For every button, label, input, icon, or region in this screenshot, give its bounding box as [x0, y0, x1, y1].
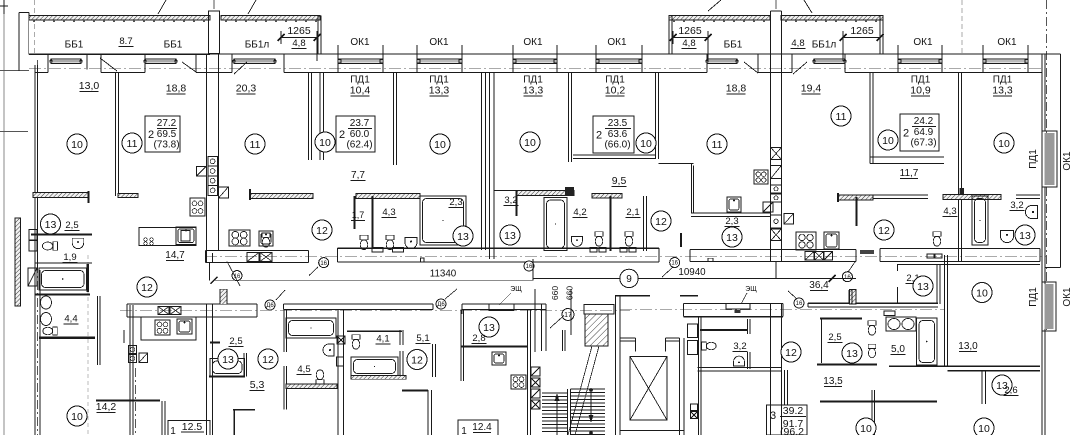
svg-text:Д6: Д6: [437, 302, 445, 308]
svg-text:12: 12: [655, 216, 667, 228]
svg-text:16: 16: [796, 301, 803, 307]
svg-text:3,2: 3,2: [1010, 200, 1023, 211]
svg-text:10: 10: [640, 138, 652, 150]
svg-text:11: 11: [127, 138, 138, 150]
svg-text:(62.4): (62.4): [346, 140, 372, 151]
svg-text:5,1: 5,1: [416, 333, 429, 344]
svg-text:4,3: 4,3: [943, 206, 956, 217]
svg-text:1265: 1265: [850, 25, 874, 37]
svg-text:1,9: 1,9: [63, 252, 76, 263]
svg-text:(66.0): (66.0): [604, 140, 630, 151]
svg-text:3,2: 3,2: [504, 195, 517, 206]
svg-text:660: 660: [550, 286, 560, 300]
svg-text:12: 12: [262, 354, 274, 366]
svg-text:16: 16: [844, 275, 851, 281]
svg-text:5,3: 5,3: [250, 379, 265, 391]
svg-text:(96.2: (96.2: [780, 426, 804, 435]
svg-text:10,2: 10,2: [605, 85, 626, 97]
svg-text:23.7: 23.7: [350, 118, 370, 129]
svg-text:1265: 1265: [678, 25, 702, 37]
svg-text:ББ1л: ББ1л: [812, 40, 837, 51]
svg-text:ОК1: ОК1: [913, 37, 933, 48]
svg-text:1,7: 1,7: [352, 210, 365, 220]
svg-text:18,8: 18,8: [166, 83, 187, 95]
svg-text:13,0: 13,0: [79, 80, 100, 92]
svg-text:10: 10: [71, 411, 83, 423]
svg-text:10: 10: [524, 137, 536, 149]
svg-text:4,8: 4,8: [292, 38, 305, 49]
svg-text:16: 16: [526, 264, 533, 270]
svg-text:10: 10: [976, 287, 988, 299]
svg-text:10: 10: [998, 138, 1010, 150]
svg-text:10: 10: [978, 423, 990, 435]
svg-text:ПД1: ПД1: [1028, 287, 1039, 307]
svg-text:ББ1: ББ1: [164, 40, 183, 51]
svg-text:ОК1: ОК1: [997, 37, 1017, 48]
svg-text:16: 16: [671, 261, 678, 267]
svg-text:11: 11: [712, 139, 723, 151]
svg-text:ОК1: ОК1: [429, 37, 449, 48]
svg-text:10: 10: [71, 139, 83, 151]
svg-text:13: 13: [457, 231, 469, 243]
svg-text:64.9: 64.9: [914, 127, 934, 138]
svg-text:20,3: 20,3: [236, 83, 257, 95]
svg-text:2,8: 2,8: [472, 333, 485, 344]
svg-text:69.5: 69.5: [157, 129, 177, 140]
svg-text:14,7: 14,7: [165, 250, 185, 261]
svg-text:ПД1: ПД1: [1028, 149, 1039, 169]
svg-text:4,3: 4,3: [382, 207, 395, 218]
svg-text:10940: 10940: [678, 267, 706, 278]
svg-text:14,2: 14,2: [96, 401, 117, 413]
svg-text:13: 13: [726, 232, 738, 244]
svg-text:12: 12: [878, 225, 890, 237]
svg-text:11340: 11340: [430, 269, 457, 280]
svg-text:10: 10: [434, 139, 446, 151]
svg-text:13,5: 13,5: [823, 376, 843, 387]
svg-text:13: 13: [483, 322, 495, 334]
svg-text:11,7: 11,7: [900, 168, 919, 179]
svg-text:660: 660: [565, 286, 575, 300]
svg-text:2,5: 2,5: [229, 336, 242, 347]
svg-text:ББ1: ББ1: [65, 40, 84, 51]
svg-text:4,1: 4,1: [376, 334, 389, 345]
svg-text:(67.3): (67.3): [910, 138, 936, 149]
svg-text:10: 10: [882, 135, 894, 147]
svg-text:10,4: 10,4: [350, 85, 371, 97]
svg-text:19,4: 19,4: [801, 83, 822, 95]
svg-text:2,5: 2,5: [828, 332, 841, 343]
svg-text:12: 12: [785, 347, 797, 359]
svg-text:ЭЩ: ЭЩ: [745, 286, 757, 293]
svg-text:ОК1: ОК1: [350, 37, 370, 48]
svg-text:1265: 1265: [287, 25, 311, 37]
svg-text:4,8: 4,8: [791, 38, 804, 49]
svg-text:60.0: 60.0: [350, 129, 370, 140]
svg-text:10: 10: [860, 423, 872, 435]
svg-text:2: 2: [339, 129, 345, 141]
svg-text:13,3: 13,3: [429, 85, 450, 97]
svg-text:12: 12: [316, 225, 328, 237]
svg-text:13: 13: [504, 230, 516, 242]
svg-text:4,4: 4,4: [64, 314, 77, 325]
svg-text:39.2: 39.2: [783, 405, 804, 417]
svg-text:ББ1: ББ1: [724, 40, 743, 51]
svg-text:12: 12: [411, 354, 423, 366]
svg-text:2: 2: [903, 128, 909, 140]
svg-text:ОК1: ОК1: [1062, 151, 1073, 171]
svg-text:ОК1: ОК1: [607, 37, 627, 48]
svg-text:7,7: 7,7: [351, 170, 365, 181]
svg-text:(73.8): (73.8): [153, 140, 179, 151]
svg-text:2,3: 2,3: [725, 216, 738, 227]
svg-text:9,5: 9,5: [612, 175, 627, 187]
svg-text:18,8: 18,8: [726, 83, 747, 95]
svg-text:5,0: 5,0: [891, 344, 905, 355]
svg-text:11: 11: [836, 111, 847, 123]
svg-text:24.2: 24.2: [914, 116, 934, 127]
svg-text:Д6: Д6: [266, 303, 274, 309]
svg-text:3: 3: [770, 410, 776, 422]
svg-text:ББ1л: ББ1л: [245, 40, 270, 51]
svg-text:27.2: 27.2: [157, 118, 177, 129]
svg-text:2,6: 2,6: [1004, 385, 1017, 396]
svg-text:ОК1: ОК1: [523, 37, 543, 48]
svg-text:13: 13: [45, 219, 57, 231]
svg-text:3,2: 3,2: [733, 341, 746, 352]
svg-text:12.4: 12.4: [472, 422, 492, 433]
svg-text:13: 13: [846, 348, 858, 360]
svg-text:10: 10: [319, 137, 331, 149]
svg-text:13: 13: [222, 354, 234, 366]
svg-text:13,3: 13,3: [992, 85, 1013, 97]
svg-text:ОК1: ОК1: [1062, 287, 1073, 307]
svg-text:9: 9: [626, 274, 632, 285]
svg-text:1: 1: [461, 426, 467, 435]
svg-text:13,3: 13,3: [523, 85, 544, 97]
svg-text:12.5: 12.5: [182, 421, 203, 433]
svg-text:16: 16: [320, 261, 327, 267]
svg-text:2: 2: [596, 130, 602, 142]
svg-text:12: 12: [141, 282, 153, 294]
svg-text:13,0: 13,0: [958, 341, 978, 352]
svg-text:1: 1: [170, 426, 176, 435]
svg-text:4,2: 4,2: [573, 207, 586, 218]
svg-text:2,1: 2,1: [626, 207, 639, 218]
svg-text:2,5: 2,5: [65, 220, 78, 231]
svg-text:13: 13: [917, 281, 929, 293]
svg-text:4,5: 4,5: [297, 364, 310, 375]
svg-text:2,3: 2,3: [449, 197, 462, 208]
svg-text:13: 13: [1019, 230, 1031, 242]
svg-text:4,8: 4,8: [682, 38, 695, 49]
svg-text:11: 11: [250, 139, 261, 151]
svg-text:36,4: 36,4: [809, 280, 829, 291]
svg-text:23.5: 23.5: [608, 118, 628, 129]
svg-text:8.7: 8.7: [119, 36, 132, 47]
svg-text:63.6: 63.6: [608, 129, 628, 140]
svg-text:10,9: 10,9: [910, 85, 931, 97]
svg-text:ЭЩ: ЭЩ: [510, 286, 522, 293]
